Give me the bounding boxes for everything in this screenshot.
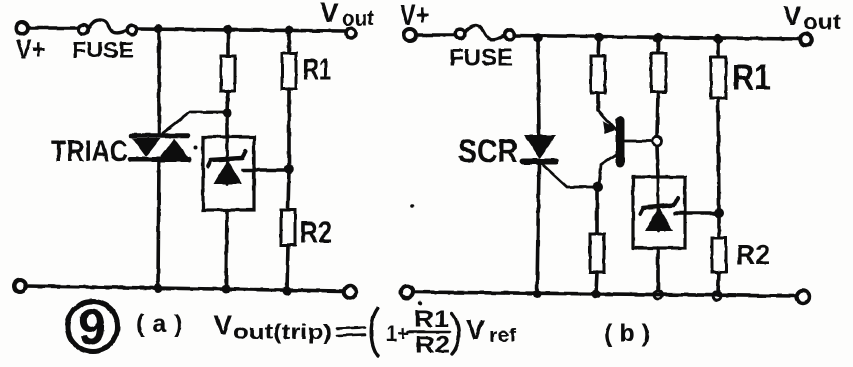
equation equals sign [337,328,365,336]
svg-text:out: out [342,8,374,31]
resistor upper zener branch (b) [651,53,666,92]
wire top rail (b) [514,36,800,40]
resistor lower gate (b) [590,234,604,272]
wire tap to R2 (a) [288,169,289,210]
node divider tap (a) [284,164,294,174]
wire bottom rail (a) [26,286,344,291]
wire zener to divider tap (b) [675,211,716,215]
equation dot over R1 [418,301,422,305]
regulator box U1 (a) [203,137,254,210]
node divider tap (b) [714,208,724,218]
wire lower resistor to rail (b) [596,272,597,294]
scan speck right of triac (a) [194,146,198,150]
node top rail R1 branch (b) [713,34,723,44]
wire open node into regulator box (b) [657,146,658,178]
node top rail / sense branch (a) [224,25,233,34]
resistor R1 (a) [282,53,296,89]
node top rail / triac branch (a) [154,24,163,33]
wire box bottom to rail (a) [226,210,227,289]
resistor upper sense (a) [221,56,235,91]
svg-text:ref: ref [489,326,517,347]
SCR Q1 (b) [523,135,556,162]
wire R1 to tap (b) [718,98,719,213]
wire V+ to fuse (a) [28,26,78,30]
svg-text:TRIAC: TRIAC [51,135,128,168]
wire triac gate (a) [163,112,227,133]
wire R2 to rail (a) [287,245,288,291]
svg-text:R1: R1 [303,54,331,87]
terminal V+ (b) [404,29,416,41]
wire resistor to emitter (b) [596,93,600,110]
wire SCR gate (b) [543,165,597,187]
scan speck mid gap [410,204,414,208]
wire zener branch upper (b) [656,38,660,53]
svg-text:V: V [320,0,339,28]
node bottom rail gate resistor (b) [592,290,601,299]
svg-text:R1: R1 [414,306,449,333]
wire V+ to fuse (b) [416,33,454,37]
terminal bottom left (b) [401,286,413,298]
svg-text:out: out [803,11,841,34]
resistor R1 (b) [711,57,726,98]
wire R1 branch upper (a) [287,30,291,53]
terminal bottom left (a) [14,280,26,292]
svg-text:1+: 1+ [386,321,409,346]
node top rail zener branch (b) [653,33,663,43]
label Vout (a) [320,0,374,31]
svg-text:V: V [783,0,802,31]
zener D1 inside box (a) [208,137,246,184]
node gate junction (a) [223,109,232,118]
wire sense branch upper (a) [226,29,230,56]
terminal Vout (b) [800,34,812,46]
wire R2 to rail (b) [718,272,719,292]
equation fraction bar [408,331,450,334]
wire gate node to lower resistor (b) [595,187,599,234]
node bottom rail sense (a) [222,285,231,294]
terminal bottom right (a) [344,286,356,298]
svg-text:R2: R2 [736,239,770,270]
wire resistor to gate node (a) [227,91,228,112]
svg-text:R2: R2 [300,215,332,250]
node base to zener column open junction (b) [653,137,662,146]
svg-text:V+: V+ [400,0,429,32]
node bottom rail SCR (b) [533,290,542,299]
node top rail SCR branch (b) [533,33,543,43]
node top rail / R1 branch (a) [285,26,294,35]
wire SCR anode (b) [538,38,539,136]
wire triac anode vertical (a) [157,28,161,134]
equation right big paren [452,314,459,354]
zener D1 inside box (b) [640,178,678,231]
fuse F1 (a) [79,20,137,35]
wire tap to R2 (b) [717,213,721,238]
svg-text:out(trip): out(trip) [233,321,332,344]
label Vout (b) [783,0,841,34]
svg-text:R2: R2 [415,332,450,359]
equation left big paren [371,308,378,356]
svg-text:V: V [466,314,485,345]
wire SCR cathode to rail (b) [537,163,539,293]
open node bottom rail zener (b) [654,291,662,299]
node bottom rail R2 (a) [283,287,292,296]
wire R1 branch upper (b) [716,39,720,57]
terminal V+ (a) [16,22,28,34]
wire gate node into regulator box (a) [225,113,229,137]
svg-text:V: V [214,310,232,340]
triac Q1 (a) [130,136,189,160]
fuse F1 (b) [455,25,514,39]
svg-text:9: 9 [78,299,106,355]
equation Vout(trip) = (1 + R1/R2) Vref [214,306,517,359]
svg-text:R1: R1 [732,57,771,98]
resistor R2 (b) [712,238,726,272]
svg-text:(a): (a) [136,310,191,338]
svg-text:FUSE: FUSE [72,38,134,63]
resistor upper transistor branch (b) [591,56,605,93]
wire triac cathode vertical (a) [158,160,159,287]
transistor Q2 (b) [598,110,652,186]
wire bottom rail (b) [413,292,797,296]
terminal Vout (a) [346,28,356,38]
svg-text:SCR: SCR [458,133,518,169]
resistor R2 (a) [281,210,295,245]
svg-text:V+: V+ [16,34,45,65]
wire top rail (a) [137,29,345,31]
open node bottom rail R1R2 (b) [713,292,721,300]
svg-text:FUSE: FUSE [449,45,513,72]
terminal bottom right (b) [797,291,809,303]
svg-text:(b): (b) [604,320,657,348]
wire R1 to tap (a) [287,89,291,169]
wire box bottom to rail (b) [656,248,660,291]
wire zener to divider tap (a) [243,168,287,172]
node bottom rail triac (a) [154,284,163,293]
figure number 9 circled [68,299,118,355]
wire resistor to open node (b) [657,92,658,136]
node top rail transistor branch (b) [594,33,604,43]
node gate junction (b) [593,182,603,192]
wire transistor branch upper (b) [598,38,599,56]
regulator box U1 (b) [633,177,685,248]
